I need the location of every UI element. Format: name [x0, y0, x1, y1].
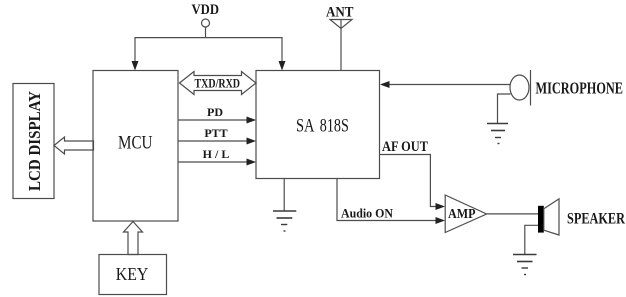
svg-text:SA: SA — [296, 116, 315, 137]
ground SA818S — [273, 211, 296, 231]
svg-text:Audio ON: Audio ON — [341, 206, 394, 221]
block SA818S U1 — [256, 71, 380, 179]
wire PTT — [178, 138, 256, 145]
wire Audio ON — [337, 179, 445, 225]
svg-text:AF OUT: AF OUT — [382, 139, 428, 155]
svg-text:818S: 818S — [320, 116, 349, 137]
svg-text:PTT: PTT — [204, 126, 227, 140]
hollow arrow MCU to LCD — [54, 137, 94, 154]
signal PD label — [207, 105, 223, 119]
svg-text:VDD: VDD — [192, 2, 220, 18]
SPEAKER label — [567, 211, 625, 228]
VDD terminal circle — [202, 19, 210, 27]
hollow arrow KEY to MCU — [124, 222, 143, 255]
AF OUT label — [382, 139, 428, 155]
wire microphone to SA818S — [380, 81, 510, 88]
wire VDD rail — [135, 37, 282, 39]
wire PD — [178, 117, 256, 124]
op-amp AMP — [445, 195, 486, 233]
wire VDD stem — [205, 27, 207, 38]
ground speaker — [513, 255, 537, 275]
signal H/L label — [203, 147, 230, 161]
Audio ON label — [341, 206, 394, 221]
speaker symbol — [538, 199, 559, 235]
block LCD DISPLAY — [13, 84, 54, 199]
svg-text:H / L: H / L — [203, 147, 230, 161]
microphone symbol — [510, 70, 531, 106]
block KEY — [99, 255, 167, 295]
ground microphone — [487, 124, 508, 144]
wire H/L — [178, 159, 256, 166]
wire microphone to ground — [498, 94, 511, 124]
svg-text:AMP: AMP — [448, 207, 476, 222]
MICROPHONE label — [536, 79, 624, 98]
svg-text:SPEAKER: SPEAKER — [567, 211, 625, 228]
bus arrow TXD/RXD — [180, 72, 257, 95]
svg-text:PD: PD — [207, 105, 223, 119]
wire antenna to SA818S — [340, 20, 342, 71]
antenna symbol — [330, 20, 352, 29]
signal PTT label — [204, 126, 227, 140]
svg-text:KEY: KEY — [116, 264, 149, 284]
wire speaker to ground — [525, 225, 538, 254]
svg-text:TXD/RXD: TXD/RXD — [195, 76, 241, 91]
wire SA818S to ground — [283, 179, 285, 212]
wire VDD to SA818S — [279, 37, 286, 71]
block MCU — [93, 71, 178, 222]
svg-text:MCU: MCU — [118, 133, 153, 154]
wire AF OUT — [380, 155, 445, 211]
wire VDD to MCU — [132, 37, 139, 71]
wire AMP to speaker — [487, 213, 538, 215]
VDD label — [192, 2, 220, 18]
ANT label — [326, 5, 354, 21]
svg-text:MICROPHONE: MICROPHONE — [536, 79, 624, 98]
svg-text:ANT: ANT — [326, 5, 354, 21]
svg-text:LCD DISPLAY: LCD DISPLAY — [25, 91, 44, 191]
